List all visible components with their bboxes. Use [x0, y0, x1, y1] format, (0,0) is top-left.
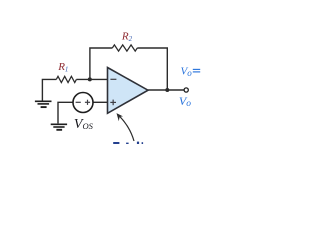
svg-text:Vo: Vo	[181, 65, 193, 78]
svg-text:R1: R1	[57, 61, 68, 73]
svg-text:R2: R2	[121, 31, 133, 43]
svg-text:VOS: VOS	[74, 117, 94, 132]
svg-text:Vo: Vo	[179, 94, 191, 109]
